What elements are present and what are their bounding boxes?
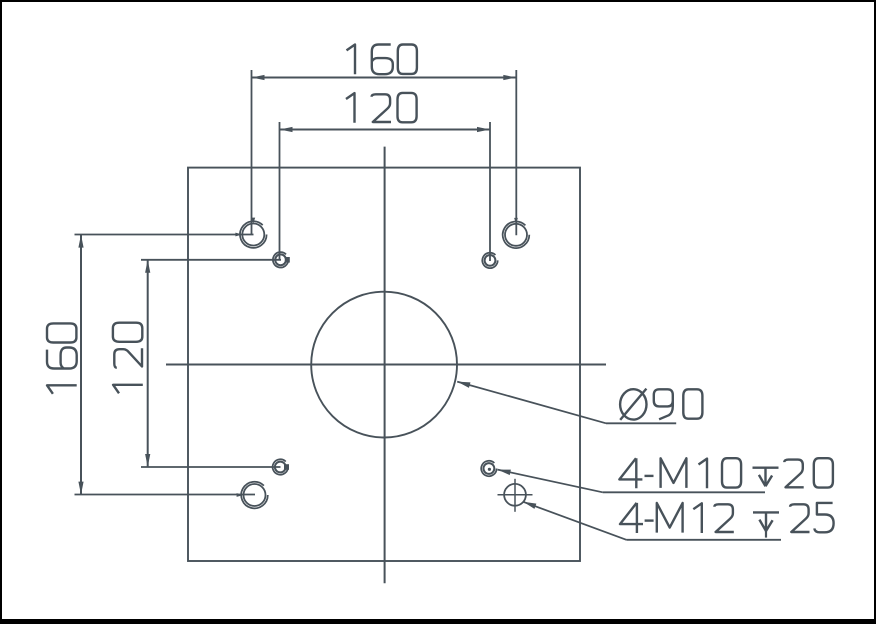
arrow right (120 horiz) [477, 127, 490, 132]
text dimension 160 top [347, 45, 417, 75]
M10 hole bottom-right with center dot [481, 461, 496, 476]
extension line left (120 horiz) [279, 122, 281, 260]
M12 hole bottom-left: tapped hole [241, 482, 268, 509]
arrow at hole TL (top, pointing down) [251, 218, 255, 224]
leader 4-M12: arrow at hole [522, 499, 536, 509]
leader O90: slant [457, 382, 606, 424]
vertical centerline [384, 147, 386, 584]
dimension 160 vertical: dim line [80, 235, 82, 495]
plate outline [188, 168, 580, 561]
leader O90: arrow at circle [456, 379, 470, 388]
arrow bottom (160 vert) [78, 482, 83, 495]
M10 hole bottom-left [273, 459, 288, 474]
arrow top (120 vert) [145, 260, 150, 273]
leader O90: landing underline [606, 422, 676, 424]
arrow left (120 horiz) [280, 127, 293, 132]
central bore circle [311, 292, 457, 438]
M10 hole top-right [482, 253, 497, 268]
text dimension 120 top [346, 93, 417, 123]
extension line top (160 vert) [75, 234, 254, 236]
dimension 120 horizontal: dim line [280, 129, 491, 131]
leader 4-M12: landing underline [626, 539, 781, 541]
dimension 120 vertical: dim line [147, 260, 149, 467]
M12 hole top-left: tapped hole [240, 221, 267, 248]
text dimension 160 left (rotated) [47, 323, 77, 393]
M10 hole top-left [273, 252, 288, 267]
page border frame [0, 0, 876, 2]
extension line left (160 horiz) [251, 70, 253, 235]
arrow at hole BL (left, pointing right) [237, 493, 244, 497]
arrow blob at M10 TL right [285, 257, 290, 263]
text 4-M12 depth 25 label [620, 503, 834, 538]
horizontal centerline [166, 364, 606, 366]
arrow right (160 horiz) [503, 75, 516, 80]
extension line top (120 vert) [141, 259, 281, 261]
extension line right (160 horiz) [515, 70, 517, 235]
arrow at hole TL (left, pointing right) [235, 233, 242, 237]
extension line bottom (160 vert) [75, 494, 256, 496]
leader 4-M12: slant [523, 502, 626, 540]
leader 4-M10: landing underline [603, 491, 765, 493]
leader 4-M10: arrow at hole [497, 467, 511, 475]
M12 hole bottom-right with center cross [498, 479, 533, 512]
arrow left (160 horiz) [252, 75, 265, 80]
arrow at hole TR (top, pointing down) [514, 218, 518, 224]
M12 hole top-right: tapped hole [503, 222, 530, 249]
extension line right (120 horiz) [489, 122, 491, 261]
arrow top (160 vert) [78, 235, 83, 248]
dimension 160 horizontal: dim line [252, 77, 517, 79]
arrow bottom (120 vert) [145, 454, 150, 467]
arrow blob at M10 BL right [284, 464, 289, 470]
extension line bottom (120 vert) [141, 466, 281, 468]
text dimension 120 left (rotated) [113, 323, 143, 394]
leader 4-M10: slant [498, 470, 603, 493]
text O90 label [620, 389, 702, 420]
text 4-M10 depth 20 label [619, 458, 832, 488]
